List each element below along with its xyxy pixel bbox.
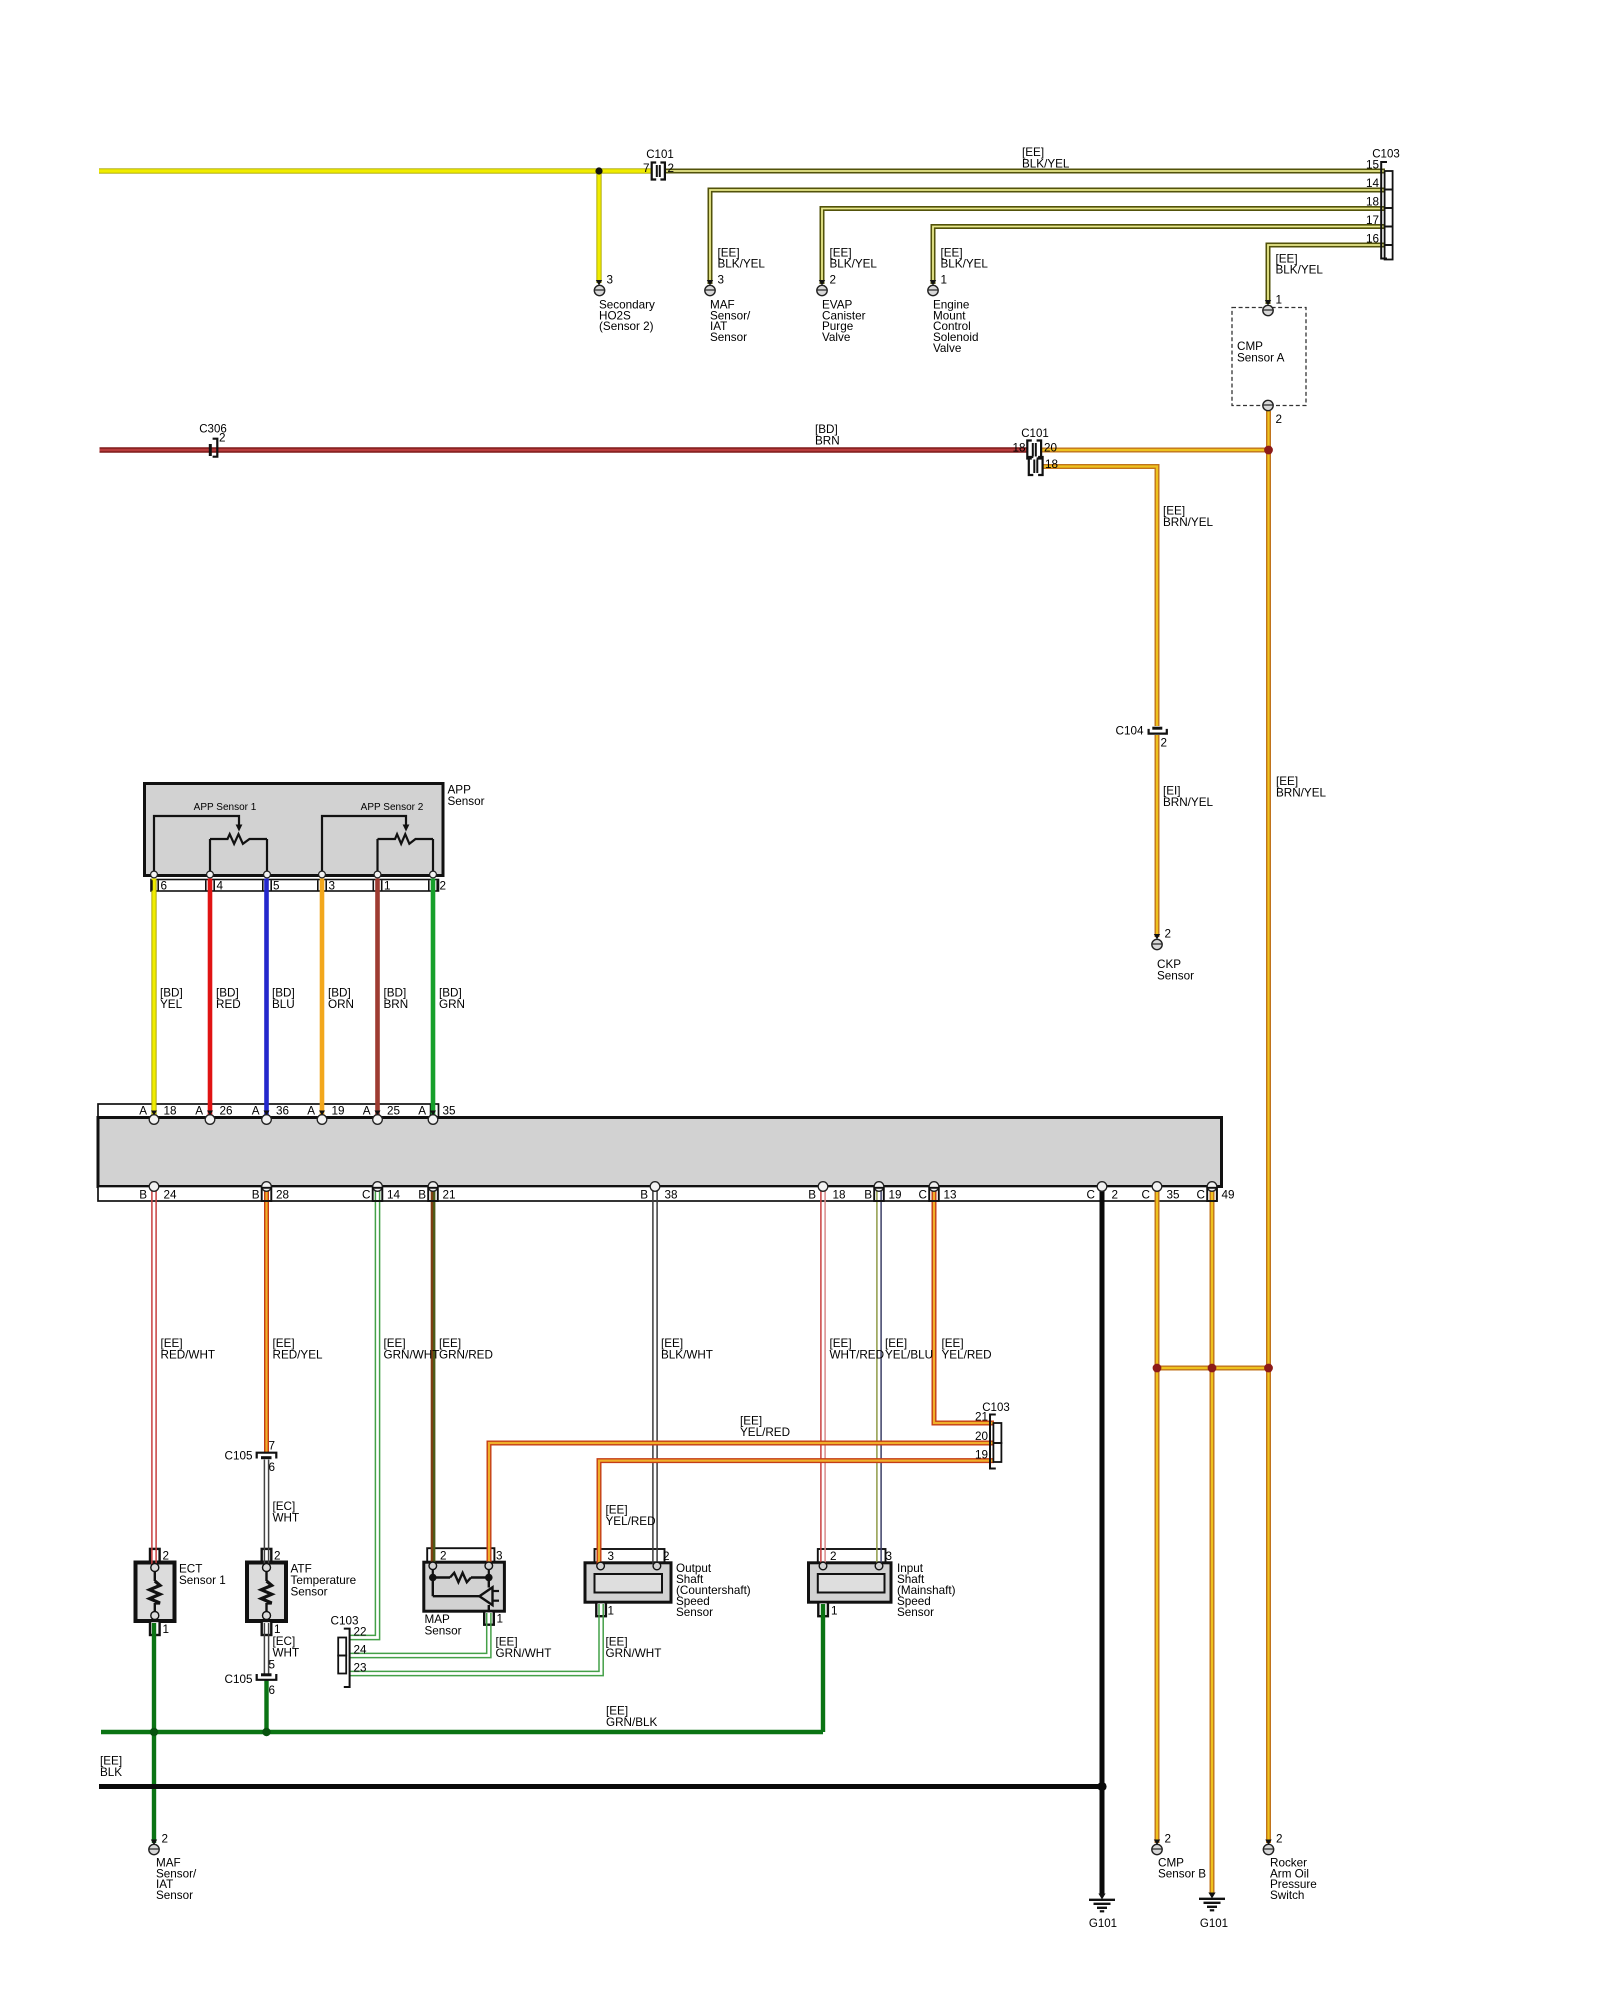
wire [EE] BLK bus <box>99 1784 1102 1789</box>
svg-text:GRN/WHT: GRN/WHT <box>496 1647 552 1660</box>
wire [EE] YEL/RED C13 to C103 pin 21 <box>934 1190 994 1423</box>
component CMP Sensor A dashed box <box>1232 308 1306 406</box>
label pin 3 Output <box>608 1550 615 1563</box>
labels ECM B/C row pins <box>139 1189 1234 1202</box>
wire [EE] GRN/WHT Output pin 1 to C103 pin 23 <box>350 1604 603 1676</box>
svg-text:2: 2 <box>1276 413 1283 426</box>
svg-text:RED/WHT: RED/WHT <box>161 1349 216 1362</box>
terminal MAP pin 3 <box>485 1562 493 1570</box>
svg-text:BRN: BRN <box>384 998 409 1011</box>
label [EE] YEL/RED output wire <box>606 1504 656 1529</box>
terminals APP sensor pins <box>151 871 437 878</box>
svg-text:C: C <box>1087 1189 1095 1202</box>
label [EE] YEL/BLU <box>885 1337 933 1362</box>
label pin 2 CKP <box>1165 928 1172 941</box>
wire [BD] ORN APP pin 3 to ECM A19 <box>320 879 325 1117</box>
terminal Engine Mount pin 1 <box>928 280 938 296</box>
wire [EE] YEL/RED C103 pin 19 to Output Shaft sensor pin 3 <box>599 1461 994 1564</box>
label CMP Sensor A <box>1237 340 1285 365</box>
label pin 2 Output <box>663 1550 670 1563</box>
wire GRN ECT pin1 through bus to MAF sensor <box>152 1623 156 1843</box>
svg-text:21: 21 <box>975 1411 988 1424</box>
svg-text:C104: C104 <box>1116 725 1144 738</box>
wire [EC] WHT C105 to ATF sensor <box>264 1460 268 1566</box>
wire [EE] BRN/YEL C35 to CMP Sensor B <box>1155 1190 1160 1843</box>
connector C105 inline pins 5/6 <box>257 1674 277 1680</box>
svg-text:WHT: WHT <box>273 1512 300 1525</box>
label pin 3 Input <box>886 1550 893 1563</box>
label pin 17 <box>1366 214 1379 227</box>
svg-text:19: 19 <box>889 1189 902 1202</box>
label pin 21 <box>975 1411 988 1424</box>
label pin 22 <box>354 1626 367 1639</box>
label pin 14 <box>1366 177 1380 190</box>
label pin 1 Input <box>831 1605 838 1618</box>
svg-text:BLK: BLK <box>100 1766 122 1779</box>
svg-text:2: 2 <box>668 162 675 175</box>
wire [EI] BRN/YEL C104 to CKP sensor <box>1155 735 1160 937</box>
svg-text:2: 2 <box>440 880 447 893</box>
svg-text:B: B <box>252 1189 260 1202</box>
svg-text:Sensor B: Sensor B <box>1158 1867 1206 1880</box>
label [EE] WHT/RED <box>830 1337 885 1362</box>
label MAP Sensor <box>425 1613 462 1638</box>
wire [EE] WHT/RED B18 to Input Shaft sensor <box>821 1190 825 1564</box>
connector C103 pins 22/24/23 <box>338 1629 349 1687</box>
svg-text:A: A <box>139 1105 147 1118</box>
label C103 <box>1372 149 1400 161</box>
svg-text:35: 35 <box>1167 1189 1181 1202</box>
svg-text:C105: C105 <box>225 1450 253 1463</box>
svg-text:Sensor: Sensor <box>448 795 485 808</box>
wire [EE] BLK/YEL Engine Mount solenoid to C103 pin 17 <box>933 227 1385 285</box>
svg-text:Sensor: Sensor <box>897 1606 934 1619</box>
terminal Secondary HO2S pin 3 <box>594 280 604 296</box>
label Input Shaft (Mainshaft) Speed Sensor <box>897 1562 956 1619</box>
svg-text:24: 24 <box>354 1644 368 1657</box>
label [EE] BLK/YEL CMP A <box>1276 253 1324 277</box>
svg-text:3: 3 <box>718 274 725 287</box>
label C105 lower <box>225 1673 253 1686</box>
label pin 2 C104 <box>1161 737 1168 750</box>
label pin 2 rocker <box>1276 1833 1283 1846</box>
connector C104 inline pin 2 <box>1149 728 1167 733</box>
label pin 16 <box>1366 233 1379 246</box>
label APP Sensor 2 <box>361 802 424 813</box>
svg-text:13: 13 <box>944 1189 957 1202</box>
svg-text:A: A <box>307 1105 315 1118</box>
svg-text:Sensor 1: Sensor 1 <box>179 1574 226 1587</box>
svg-text:18: 18 <box>833 1189 846 1202</box>
terminal CMP Sensor A pin 2 <box>1263 400 1273 410</box>
connector C306 inline pin 2 <box>210 439 217 457</box>
component APP Sensor box <box>145 784 444 876</box>
terminal MAF Sensor pin 3 <box>705 280 715 296</box>
svg-text:B: B <box>864 1189 872 1202</box>
wire [BD] YEL APP pin 6 to ECM A18 <box>151 879 156 1117</box>
svg-text:YEL/RED: YEL/RED <box>606 1515 656 1528</box>
label [EE] BLK/YEL Engine Mount <box>941 247 989 271</box>
svg-text:Switch: Switch <box>1270 1889 1304 1902</box>
wire [EC] WHT ATF pin1 to C105 lower <box>264 1623 268 1675</box>
labels ECM A row pins <box>139 1105 456 1118</box>
svg-text:YEL/BLU: YEL/BLU <box>885 1349 933 1362</box>
svg-text:C101: C101 <box>646 149 674 161</box>
label MAF Sensor/IAT Sensor <box>710 299 751 344</box>
svg-text:C: C <box>1142 1189 1150 1202</box>
label C105 <box>225 1450 253 1463</box>
component MAP Sensor box <box>424 1548 505 1625</box>
component ATF Temperature Sensor box <box>247 1549 286 1635</box>
wire GRN C105 to GRN/BLK bus <box>264 1681 268 1733</box>
node junction green bus at ATF wire <box>262 1728 270 1736</box>
svg-text:35: 35 <box>443 1105 457 1118</box>
svg-text:Sensor: Sensor <box>291 1586 328 1599</box>
label [BD] BRN <box>815 423 840 448</box>
svg-text:BRN/YEL: BRN/YEL <box>1163 516 1214 529</box>
svg-text:BLK/YEL: BLK/YEL <box>941 258 989 271</box>
svg-text:2: 2 <box>830 274 837 287</box>
svg-text:B: B <box>640 1189 648 1202</box>
terminal EVAP pin 2 <box>817 280 827 296</box>
label pin 3 Secondary HO2S <box>607 274 614 287</box>
label pin 2 CMP B <box>1165 1833 1172 1846</box>
svg-text:20: 20 <box>975 1430 989 1443</box>
svg-text:19: 19 <box>975 1449 988 1462</box>
svg-text:Valve: Valve <box>933 342 961 355</box>
svg-text:BLK/WHT: BLK/WHT <box>661 1349 713 1362</box>
svg-text:18: 18 <box>1366 196 1379 209</box>
label pin 18 second row <box>1045 458 1058 471</box>
label pin 6 C105 <box>269 1461 276 1474</box>
svg-text:Sensor: Sensor <box>710 331 747 344</box>
wire [EE] BRN/YEL C101 pin 18 to C104 <box>1043 467 1157 727</box>
svg-text:3: 3 <box>329 880 336 893</box>
svg-text:24: 24 <box>164 1189 178 1202</box>
terminal MAF Sensor pin 2 bottom <box>149 1840 159 1855</box>
node junction C49 link <box>1208 1364 1217 1373</box>
node junction black bus at C2 wire <box>1097 1782 1106 1791</box>
svg-text:B: B <box>808 1189 816 1202</box>
label pin 7 C105 <box>269 1440 276 1453</box>
svg-text:2: 2 <box>219 432 226 445</box>
svg-text:2: 2 <box>1112 1189 1119 1202</box>
thermistor ATF sensor <box>261 1564 271 1620</box>
label pin 2 MAF bottom <box>162 1833 169 1846</box>
svg-text:18: 18 <box>1045 458 1058 471</box>
labels APP wire colors <box>160 987 465 1012</box>
label pin 3 MAF <box>718 274 725 287</box>
svg-text:26: 26 <box>220 1105 233 1118</box>
label pin 1 ATF <box>274 1623 281 1636</box>
svg-text:6: 6 <box>269 1684 276 1697</box>
svg-text:16: 16 <box>1366 233 1379 246</box>
svg-text:2: 2 <box>440 1550 447 1563</box>
svg-text:WHT: WHT <box>273 1647 300 1660</box>
component Input Shaft Speed Sensor box <box>809 1549 892 1616</box>
label pin 6 C105 lower <box>269 1684 276 1697</box>
label pin 1 ECT <box>163 1623 170 1636</box>
svg-text:2: 2 <box>663 1550 670 1563</box>
node junction green bus at ECT wire <box>150 1728 158 1736</box>
label pin 18 left <box>1012 442 1025 455</box>
label APP Sensor <box>448 784 485 809</box>
component Output Shaft Speed Sensor box <box>585 1549 671 1616</box>
svg-text:1: 1 <box>497 1613 504 1626</box>
label pin 2 EVAP <box>830 274 837 287</box>
svg-text:Valve: Valve <box>822 331 850 344</box>
svg-text:C: C <box>362 1189 370 1202</box>
ground G101 black wire <box>1089 1894 1115 1912</box>
ground G101 C49 wire <box>1199 1893 1225 1911</box>
svg-text:A: A <box>363 1105 371 1118</box>
svg-text:GRN/WHT: GRN/WHT <box>384 1349 440 1362</box>
svg-text:BLU: BLU <box>272 998 295 1011</box>
terminal Input pin 2 <box>819 1562 827 1570</box>
svg-text:1: 1 <box>163 1623 170 1636</box>
wire [EE] YEL/RED C103 pin 20 to MAP sensor pin 3 <box>489 1443 994 1564</box>
svg-text:17: 17 <box>1366 214 1379 227</box>
wire [BD] BLU APP pin 5 to ECM A36 <box>264 879 269 1117</box>
svg-text:5: 5 <box>269 1659 276 1672</box>
svg-text:18: 18 <box>1012 442 1025 455</box>
svg-text:7: 7 <box>269 1440 276 1453</box>
wire [BD] BRN bus <box>100 447 1028 452</box>
terminal MAP pin 2 <box>429 1562 437 1570</box>
svg-text:2: 2 <box>1276 1833 1283 1846</box>
wire [EE] YEL/BLU B19 to Input Shaft sensor <box>877 1190 881 1564</box>
label [EE] BLK/YEL MAF <box>718 247 766 271</box>
label pin 3 MAP <box>496 1550 503 1563</box>
svg-text:RED/YEL: RED/YEL <box>273 1349 324 1362</box>
svg-text:3: 3 <box>608 1550 615 1563</box>
svg-text:14: 14 <box>387 1189 401 1202</box>
label pin 18 <box>1366 196 1379 209</box>
svg-text:G101: G101 <box>1089 1918 1117 1930</box>
terminal CMP Sensor A pin 1 <box>1263 300 1273 316</box>
label [EE] RED/YEL <box>273 1337 324 1362</box>
label C101 <box>646 149 674 161</box>
connector C101 inline pins 18/20 + 18 <box>1027 441 1042 476</box>
wire [EE] BLK/YEL C101 to C103 pin 15 <box>665 169 1385 174</box>
svg-text:BLK/YEL: BLK/YEL <box>1022 158 1070 171</box>
label pin 15 <box>1366 159 1380 172</box>
connector C103 pins 21/20/19 <box>990 1415 1001 1469</box>
label [EE] GRN/WHT C14 <box>384 1337 440 1362</box>
terminal CMP Sensor B pin 2 <box>1152 1840 1162 1855</box>
label [EE] BRN/YEL rocker wire <box>1276 775 1327 800</box>
svg-text:BLK/YEL: BLK/YEL <box>830 258 878 271</box>
labels APP connector pin numbers <box>161 880 447 893</box>
label C103 inline <box>982 1402 1010 1414</box>
svg-text:GRN/RED: GRN/RED <box>439 1349 493 1362</box>
label ECT Sensor 1 <box>179 1563 226 1588</box>
terminal CKP Sensor pin 2 <box>1152 934 1162 950</box>
label G101 left <box>1089 1918 1117 1930</box>
label Rocker Arm Oil Pressure Switch <box>1270 1857 1317 1902</box>
svg-text:4: 4 <box>217 880 224 893</box>
wire [EE] BLK/YEL EVAP valve to C103 pin 18 <box>822 209 1385 285</box>
svg-text:1: 1 <box>831 1605 838 1618</box>
svg-text:2: 2 <box>830 1550 837 1563</box>
label pin 20 <box>975 1430 989 1443</box>
terminal Output pin 2 <box>653 1562 661 1570</box>
label [EE] YEL/RED pin20 wire <box>740 1415 790 1440</box>
label C101 lower <box>1021 428 1049 440</box>
svg-text:ORN: ORN <box>328 998 354 1011</box>
wire [EE] BLK/YEL CMP Sensor A to C103 pin 16 <box>1268 245 1385 304</box>
resistor inside MAP sensor <box>429 1570 493 1583</box>
svg-text:19: 19 <box>332 1105 345 1118</box>
svg-text:C: C <box>1197 1189 1205 1202</box>
wire [EE] BRN/YEL C49 to ground G101 <box>1210 1190 1215 1894</box>
svg-text:BRN/YEL: BRN/YEL <box>1163 796 1214 809</box>
svg-text:BRN/YEL: BRN/YEL <box>1276 787 1327 800</box>
label pin 2 Input <box>830 1550 837 1563</box>
svg-text:C: C <box>919 1189 927 1202</box>
label [EE] GRN/WHT MAP wire <box>496 1636 552 1661</box>
terminal Rocker Arm Oil Pressure Switch pin 2 <box>1263 1840 1273 1855</box>
label [EE] BLK/WHT <box>661 1337 713 1362</box>
svg-text:2: 2 <box>163 1550 170 1563</box>
wire [BD] RED APP pin 4 to ECM A26 <box>208 879 213 1117</box>
component ECT Sensor 1 box <box>136 1549 175 1635</box>
thermistor ECT Sensor 1 <box>150 1564 160 1620</box>
svg-text:2: 2 <box>1165 928 1172 941</box>
wire GRN/BLK Input pin 1 down to bus <box>821 1604 825 1732</box>
label pin 1 MAP <box>497 1613 504 1626</box>
label pin 1 Engine Mount <box>941 274 948 287</box>
svg-text:RED: RED <box>216 998 241 1011</box>
label [EE] BLK/YEL top <box>1022 146 1070 171</box>
svg-text:21: 21 <box>443 1189 456 1202</box>
label pin 2 ECT <box>163 1550 170 1563</box>
label [EE] BLK/YEL EVAP <box>830 247 878 271</box>
node junction C35 link <box>1153 1364 1162 1373</box>
label pin 1 Output <box>608 1605 615 1618</box>
label [EC] WHT upper <box>273 1500 300 1525</box>
svg-text:Sensor: Sensor <box>1157 970 1194 983</box>
svg-text:GRN/BLK: GRN/BLK <box>606 1716 658 1729</box>
svg-text:14: 14 <box>1366 177 1380 190</box>
terminals ECM B/C row <box>149 1182 1217 1192</box>
connector shells on B row pins <box>262 1188 1217 1201</box>
terminal Input pin 3 <box>875 1562 883 1570</box>
svg-text:2: 2 <box>274 1550 281 1563</box>
label [EE] GRN/BLK <box>606 1705 658 1730</box>
label ATF Temperature Sensor <box>291 1563 357 1599</box>
svg-text:YEL/RED: YEL/RED <box>740 1426 790 1439</box>
wire [EE] BLK/YEL MAF Sensor to C103 pin 14 <box>710 190 1385 284</box>
wire [EE] GRN/BLK bus <box>101 1730 823 1734</box>
svg-text:3: 3 <box>607 274 614 287</box>
label pin 2 C306 <box>219 432 226 445</box>
label CMP Sensor B <box>1158 1857 1206 1881</box>
label pin 20 right <box>1044 442 1058 455</box>
wire [BD] BRN APP pin 1 to ECM A25 <box>375 879 380 1117</box>
svg-text:B: B <box>139 1189 147 1202</box>
svg-text:A: A <box>195 1105 203 1118</box>
wire YEL drop to Secondary HO2S <box>596 171 601 283</box>
label C104 <box>1116 725 1144 738</box>
label pin 1 CMP A <box>1276 294 1283 307</box>
label C103 left <box>331 1615 359 1628</box>
svg-text:WHT/RED: WHT/RED <box>830 1349 885 1362</box>
label pin 23 <box>354 1662 367 1675</box>
svg-text:2: 2 <box>1165 1833 1172 1846</box>
wire [EE] BRN/YEL C101 to junction <box>1042 448 1269 453</box>
wire [EE] BLK C2 to ground G101 <box>1100 1190 1105 1895</box>
svg-text:2: 2 <box>1161 737 1168 750</box>
node junction on YEL bus <box>595 167 602 174</box>
svg-text:BRN: BRN <box>815 435 840 448</box>
svg-text:C101: C101 <box>1021 428 1049 440</box>
wire [EE] GRN/WHT MAP pin 1 to C103 pin 24 <box>350 1613 491 1658</box>
label pin 2 MAP <box>440 1550 447 1563</box>
label [EE] BRN/YEL CKP upper <box>1163 505 1214 530</box>
svg-text:25: 25 <box>387 1105 401 1118</box>
svg-text:23: 23 <box>354 1662 367 1675</box>
svg-text:A: A <box>252 1105 260 1118</box>
label pin 24 <box>354 1644 368 1657</box>
svg-text:Sensor A: Sensor A <box>1237 352 1285 365</box>
node junction BRN/YEL at C101 branch <box>1264 446 1273 455</box>
wire [EE] RED/WHT B24 to ECT sensor <box>152 1190 156 1565</box>
label [EE] YEL/RED C13 <box>942 1337 992 1362</box>
label pin 2 ATF <box>274 1550 281 1563</box>
label pin 7 <box>643 162 650 175</box>
label [EE] GRN/RED <box>439 1337 493 1362</box>
svg-text:BLK/YEL: BLK/YEL <box>718 258 766 271</box>
svg-text:6: 6 <box>161 880 168 893</box>
svg-text:49: 49 <box>1222 1189 1235 1202</box>
label Engine Mount Control Solenoid Valve <box>933 299 979 355</box>
label Secondary HO2S (Sensor 2) <box>599 299 655 334</box>
svg-text:B: B <box>418 1189 426 1202</box>
svg-text:6: 6 <box>269 1461 276 1474</box>
wire [EE] BRN/YEL vertical CMP Sensor A to Rocker Arm switch <box>1266 411 1271 1843</box>
terminal Output pin 3 <box>597 1562 605 1570</box>
svg-text:2: 2 <box>162 1833 169 1846</box>
node junction rocker link <box>1264 1364 1273 1373</box>
wire [EE] BLK/WHT B38 to Output Shaft sensor <box>653 1190 657 1564</box>
connector C101 inline pins 7/2 <box>652 163 665 180</box>
svg-text:GRN/WHT: GRN/WHT <box>606 1647 662 1660</box>
svg-text:C105: C105 <box>225 1673 253 1686</box>
label [EC] WHT lower <box>273 1635 300 1660</box>
label EVAP Canister Purge Valve <box>822 299 866 344</box>
label Output Shaft (Countershaft) Speed Sensor <box>676 1562 751 1619</box>
label pin 5 C105 <box>269 1659 276 1672</box>
svg-text:GRN: GRN <box>439 998 465 1011</box>
svg-text:BLK/YEL: BLK/YEL <box>1276 264 1324 277</box>
svg-text:1: 1 <box>1276 294 1283 307</box>
label [EE] RED/WHT <box>161 1337 216 1362</box>
wire [EE] RED/YEL B28 to C105 <box>264 1190 269 1452</box>
label MAF Sensor/IAT Sensor bottom <box>156 1857 197 1902</box>
svg-text:(Sensor 2): (Sensor 2) <box>599 320 654 333</box>
svg-text:28: 28 <box>276 1189 289 1202</box>
svg-text:YEL: YEL <box>160 998 183 1011</box>
svg-text:YEL/RED: YEL/RED <box>942 1349 992 1362</box>
wire [BD] YEL main yellow bus <box>99 168 652 173</box>
connector strip APP sensor <box>151 880 439 892</box>
svg-text:18: 18 <box>164 1105 177 1118</box>
svg-text:1: 1 <box>608 1605 615 1618</box>
svg-text:Sensor: Sensor <box>676 1606 713 1619</box>
svg-text:1: 1 <box>941 274 948 287</box>
svg-text:Sensor: Sensor <box>156 1889 193 1902</box>
